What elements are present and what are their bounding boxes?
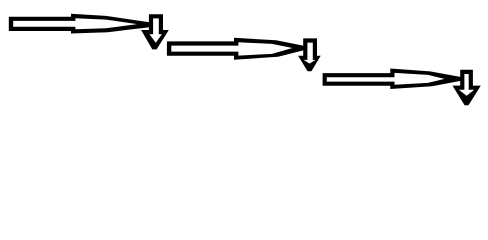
arrow A3 (horizontal, step 3) — [323, 69, 461, 90]
down arrow D1 (step 1) — [141, 14, 169, 49]
down arrow D2 (step 2) — [298, 38, 321, 71]
down arrow D3 (step 3) — [453, 70, 481, 106]
arrow A2 (horizontal, step 2) — [167, 38, 304, 60]
arrow A1 (horizontal, step 1) — [9, 14, 150, 34]
